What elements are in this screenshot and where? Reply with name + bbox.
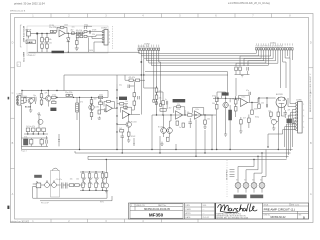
capacitor C70 <box>62 183 63 189</box>
matrix column 3 resistors <box>95 174 99 191</box>
svg-text:printed on 30/1/02: printed on 30/1/02 <box>11 221 30 224</box>
wire bus 2 <box>141 50 258 56</box>
label block stage2 <box>50 108 56 111</box>
svg-text:B: B <box>303 215 305 219</box>
connector CON3 <box>17 96 21 106</box>
wire con1 p13 stub <box>287 50 289 56</box>
label channel block <box>222 92 229 95</box>
resistor R60 <box>215 97 218 102</box>
wire drop ends CON2 p8 mark <box>155 102 157 105</box>
pin squares CON5 <box>296 103 298 131</box>
svg-text:10k: 10k <box>207 118 210 120</box>
svg-text:BC184: BC184 <box>25 106 31 109</box>
pin name ticks CON1 <box>256 43 292 45</box>
components lower mid R29 <box>98 110 101 114</box>
svg-text:100k: 100k <box>272 120 276 122</box>
node rail mid <box>41 90 42 91</box>
svg-text:AMENDMENT DETAILS SEE SHEET 2: AMENDMENT DETAILS SEE SHEET 2 <box>309 73 312 112</box>
svg-text:1n5: 1n5 <box>72 26 75 28</box>
resistor R55 <box>167 137 170 141</box>
transistor Q3 <box>89 105 94 110</box>
svg-text:IC2c: IC2c <box>196 109 200 111</box>
bus wire D <box>88 156 287 159</box>
wire con1 p9 drop <box>236 50 278 66</box>
RC block R7 C3 <box>76 32 83 38</box>
svg-text:MF350-60-02: MF350-60-02 <box>270 216 286 219</box>
ground right stage a <box>224 134 227 136</box>
label plate right <box>250 195 263 199</box>
capacitor C60 <box>249 92 250 95</box>
capacitor C51 <box>188 118 192 128</box>
svg-text:SHT 1 of 2: SHT 1 of 2 <box>291 204 299 206</box>
trimmer VR1 <box>76 103 79 112</box>
right stage nodes <box>217 98 236 99</box>
node rail mid2 <box>56 90 57 91</box>
op-amp IC2a <box>123 111 130 119</box>
transistor Q30 <box>104 183 109 188</box>
wire drop header p8 <box>155 50 157 101</box>
svg-text:1u5: 1u5 <box>288 116 291 118</box>
wire r42 <box>117 104 128 110</box>
wire Q11 Q12 <box>164 115 172 137</box>
resistor R62 <box>234 100 237 104</box>
transistor Q4 <box>38 119 43 124</box>
wire con5 p7 <box>294 121 295 130</box>
svg-text:3: 3 <box>109 38 110 40</box>
legs to bus centre-right <box>152 110 212 156</box>
right zone divider ticks <box>309 68 314 169</box>
resistor R69 <box>277 112 280 116</box>
feedback IC3a <box>239 96 250 103</box>
svg-text:1k5: 1k5 <box>268 110 271 112</box>
wire con1 p7 drop <box>244 50 273 66</box>
resistor R80 <box>105 173 108 177</box>
wire to valve <box>258 98 276 104</box>
svg-text:CON4: CON4 <box>101 28 107 30</box>
net label column dashes <box>230 170 235 177</box>
bypass arc <box>52 168 59 170</box>
resistor R25 chain <box>90 97 93 120</box>
ground R44 <box>127 136 130 142</box>
wire drive out right <box>202 115 216 120</box>
resistor R22 <box>52 96 56 98</box>
heater wires top <box>238 160 266 183</box>
lower row resistor R31 <box>31 128 35 132</box>
resistor R45 <box>120 130 124 132</box>
Marshall script logo <box>218 204 257 213</box>
ground drive <box>160 142 163 146</box>
svg-text:BC184: BC184 <box>131 121 137 123</box>
resistor R44 <box>127 132 130 136</box>
wire con1 p8 drop <box>248 50 276 66</box>
capacitor C62 <box>284 110 288 118</box>
node input junction <box>36 33 38 35</box>
wire con5 p3 <box>293 109 296 147</box>
svg-text:Page 1: Page 1 <box>28 54 34 56</box>
rail label <box>52 51 65 54</box>
svg-text:1u: 1u <box>165 99 167 101</box>
wire con1 p10 drop <box>279 50 281 88</box>
transistor Q11 <box>161 128 167 134</box>
bottom stage resistor R34 <box>30 139 33 144</box>
wire con1 p14 stub <box>289 50 291 58</box>
valve legs <box>278 106 284 116</box>
bottom stage capacitor C23 <box>46 140 47 144</box>
wire drop header p9 <box>159 50 161 103</box>
wires CON5 to circuit <box>268 88 296 159</box>
svg-text:FX LOOP: FX LOOP <box>41 202 50 204</box>
resistor R70 series <box>69 184 74 187</box>
resistor R67 <box>258 104 261 108</box>
resistor R9 <box>84 31 87 33</box>
ground right stage b <box>239 131 242 133</box>
pin labels CON5 <box>303 104 304 129</box>
svg-text:56k: 56k <box>52 100 55 102</box>
matrix column 2 resistors <box>88 174 92 191</box>
svg-text:1n: 1n <box>179 127 181 129</box>
svg-text:ECC83: ECC83 <box>276 94 283 96</box>
wire Q10 <box>117 115 129 133</box>
svg-text:IC1a: IC1a <box>57 28 61 30</box>
svg-text:25.1.02: 25.1.02 <box>203 217 209 219</box>
svg-text:22k: 22k <box>177 104 180 106</box>
svg-text:47k 47k: 47k 47k <box>129 77 135 79</box>
bottom legs centre left <box>117 138 135 153</box>
pin number labels <box>109 32 110 44</box>
wire bus 1 <box>139 50 256 53</box>
svg-text:220k: 220k <box>99 94 103 96</box>
svg-text:1: 1 <box>303 104 304 106</box>
svg-text:APPD: APPD <box>186 212 192 215</box>
right zone letters <box>310 42 312 197</box>
svg-text:CHKD: CHKD <box>186 209 192 211</box>
pin labels row <box>138 46 150 48</box>
wire con5 p6 <box>287 118 296 159</box>
op-amp IC1b mid-left output <box>106 105 112 112</box>
svg-text:IC2a: IC2a <box>124 109 128 111</box>
wire heater feed 1 <box>253 159 255 162</box>
svg-text:D: D <box>310 42 312 45</box>
left rail down <box>21 105 23 149</box>
resistor R52 <box>160 109 166 112</box>
svg-text:4k7: 4k7 <box>71 30 74 32</box>
capacitor C71 <box>66 183 67 189</box>
resistor R47 <box>133 101 136 105</box>
wire con1 p6 drop <box>240 50 271 66</box>
drive row nodes <box>156 114 206 115</box>
mid components R27 <box>99 96 103 98</box>
pin name ticks CON2 <box>139 45 159 47</box>
wire op-amp output <box>65 32 84 34</box>
drawing frame inner border <box>15 18 309 220</box>
svg-text:10k: 10k <box>89 178 92 180</box>
heater stubs below <box>238 188 262 192</box>
svg-text:DRN: DRN <box>186 205 191 207</box>
wire con5 p8 <box>292 123 296 125</box>
lower row resistor R32 <box>37 128 41 132</box>
bus wire B <box>75 151 291 153</box>
valve heater pin circle b <box>243 183 249 189</box>
svg-text:10k: 10k <box>261 102 264 104</box>
wire con5 p9 <box>285 127 296 147</box>
svg-text:—: — <box>203 209 205 211</box>
svg-text:270p: 270p <box>84 24 88 26</box>
wire bus 4 <box>146 50 263 61</box>
top zone divider ticks <box>51 14 272 18</box>
node stage3 in <box>73 97 74 98</box>
feedback wire IC2c <box>193 108 204 115</box>
wire drop p3 long <box>143 58 145 75</box>
capacitor C4 270p <box>84 26 92 29</box>
svg-text:1k8: 1k8 <box>94 98 97 100</box>
wire heater d <box>262 160 266 183</box>
header pins CON2 <box>138 48 160 50</box>
svg-text:VOL: VOL <box>24 137 28 139</box>
feedback wire IC1b <box>104 101 114 108</box>
resistor R6 <box>72 32 75 35</box>
svg-text:C: C <box>12 92 14 95</box>
wire con5 p1 <box>290 88 296 104</box>
valve heater pin circle d <box>259 183 265 189</box>
wire con1 p15 stub <box>291 50 293 60</box>
vertical feed wires centre <box>141 75 156 115</box>
valve V1 <box>276 97 287 108</box>
svg-text:100k: 100k <box>254 108 258 110</box>
resistor R8 drop <box>76 38 79 48</box>
resistor R63 <box>234 107 237 111</box>
wire stage3 out <box>101 91 108 111</box>
bottom stage resistor R35 <box>40 139 43 144</box>
resistor R71 series <box>75 184 80 187</box>
wire drop ends CON2 p9 mark <box>160 104 162 107</box>
svg-text:47k: 47k <box>80 102 83 104</box>
node rail left <box>21 90 22 91</box>
bus wire A <box>22 149 293 151</box>
jack J2 <box>33 181 41 188</box>
svg-text:22k: 22k <box>92 34 95 36</box>
wire junction drop <box>36 34 38 52</box>
wire trimmer <box>76 97 78 120</box>
capacitor C5 <box>89 30 90 33</box>
wire con5 p4 <box>291 112 296 151</box>
pcb outline box input stage <box>27 26 108 53</box>
wire IC3a out <box>248 103 259 111</box>
svg-text:820p: 820p <box>255 116 259 118</box>
wire con5 p2 <box>288 98 296 106</box>
resistor R68 <box>270 112 273 116</box>
wire drive row <box>152 114 213 116</box>
svg-text:47k: 47k <box>159 90 162 92</box>
resistor R61 <box>215 104 218 109</box>
capacitor C61 <box>266 104 267 107</box>
svg-text:INPUT: INPUT <box>26 30 33 32</box>
wire bus 6 <box>151 50 268 65</box>
feedback resistor R43 <box>123 106 127 108</box>
svg-text:10k: 10k <box>70 178 73 180</box>
title block right: title cell <box>263 203 309 219</box>
svg-text:3: 3 <box>303 110 304 112</box>
pot P2 <box>45 183 50 188</box>
resistor R50 top <box>155 86 158 115</box>
svg-text:IC3a: IC3a <box>242 97 246 99</box>
matrix column 1 resistors <box>82 174 86 191</box>
label contour block <box>173 99 186 102</box>
svg-text:MF350-60-02 B: MF350-60-02 B <box>10 11 26 13</box>
label plate left <box>234 195 247 199</box>
wire bus 8 long <box>228 72 237 96</box>
supply rail top <box>22 90 108 92</box>
svg-text:470R: 470R <box>92 30 97 32</box>
svg-text:10k: 10k <box>76 178 79 180</box>
svg-text:C2 R4: C2 R4 <box>49 25 54 27</box>
label fx block <box>34 175 42 178</box>
ground stub Q1 <box>29 103 32 112</box>
title block outline <box>129 203 309 219</box>
bias network R C near CON1 <box>235 67 249 71</box>
resistor R26 <box>90 112 93 116</box>
svg-text:1: 1 <box>109 32 110 34</box>
svg-text:470k: 470k <box>212 95 216 97</box>
left zone letters <box>12 42 14 197</box>
wire valve leg to bus <box>277 116 279 149</box>
resistor R58 <box>204 120 207 124</box>
ground buffer <box>104 191 108 193</box>
resistor R64 <box>251 110 254 114</box>
op-amp IC2b <box>176 111 183 119</box>
connector CON4 <box>104 30 108 46</box>
CON1 fan-down wires <box>236 50 292 88</box>
svg-text:Page 2: Page 2 <box>21 150 27 152</box>
resistor R51 <box>162 101 165 105</box>
resistor R56 <box>176 121 179 125</box>
node out2 <box>56 97 57 98</box>
svg-text:V4: V4 <box>260 179 262 181</box>
svg-text:2M2: 2M2 <box>44 43 48 45</box>
svg-text:4k7: 4k7 <box>169 107 172 109</box>
bus wire C <box>88 155 289 157</box>
capacitor C20 <box>35 97 36 104</box>
svg-text:1k5: 1k5 <box>119 128 122 130</box>
components lower mid C22 <box>104 109 105 113</box>
left margin vertical text bracket <box>20 25 21 47</box>
svg-text:10k: 10k <box>187 112 190 114</box>
svg-text:GAIN: GAIN <box>27 41 33 44</box>
wire con3 to stage <box>21 97 34 103</box>
lower row nodes <box>27 133 44 134</box>
ground GND1 <box>75 48 79 50</box>
svg-text:USED ON: USED ON <box>136 205 145 207</box>
title block logo cell divider <box>215 203 217 219</box>
supply feed corner wire <box>64 75 228 91</box>
resistor R1 chain <box>41 34 44 53</box>
resistor R65 <box>240 120 243 124</box>
heater feed drops from bus <box>254 150 266 161</box>
svg-text:MF350: MF350 <box>149 213 164 218</box>
svg-text:PRE AMP CIRCUIT (1.): PRE AMP CIRCUIT (1.) <box>264 207 296 211</box>
heater feed nodes <box>253 152 262 160</box>
svg-text:V1: V1 <box>236 179 238 181</box>
feedback wire <box>57 27 67 33</box>
resistor R3 series <box>54 30 57 32</box>
label master block <box>119 97 127 100</box>
svg-text:IC2b: IC2b <box>177 109 181 111</box>
long drop wire <box>79 97 81 149</box>
feedback resistor R53 <box>176 106 180 108</box>
svg-text:MAIN PCB: MAIN PCB <box>22 52 25 63</box>
svg-text:9: 9 <box>303 127 304 129</box>
dotted separation line <box>226 160 228 198</box>
bus nodes <box>79 146 269 157</box>
main left rail <box>116 84 118 146</box>
trimmer VR2 <box>229 110 232 120</box>
svg-text:470k: 470k <box>52 94 56 96</box>
scanner punch mark upper <box>8 97 10 100</box>
svg-text:47u 47u: 47u 47u <box>56 179 63 181</box>
left zone divider ticks <box>11 68 15 169</box>
svg-text:4u7: 4u7 <box>99 100 102 102</box>
svg-text:BC184: BC184 <box>158 126 164 128</box>
mid components R28 <box>99 102 103 104</box>
lower row legs <box>28 132 44 134</box>
svg-text:CON2: CON2 <box>144 43 150 45</box>
transistor Q21 <box>271 119 276 124</box>
wire jack to pots <box>41 184 61 186</box>
svg-text:2: 2 <box>109 35 110 37</box>
wire heater feed 3 <box>261 153 263 160</box>
svg-text:4: 4 <box>109 42 110 44</box>
capacitor C50 <box>166 101 167 105</box>
resistor R20 <box>24 98 27 103</box>
svg-text:68k: 68k <box>49 39 52 41</box>
wire bus 3 <box>144 50 261 58</box>
resistor R57 <box>182 123 185 127</box>
scanner punch mark lower <box>7 206 9 209</box>
resistor R66 <box>248 118 251 122</box>
node row right <box>251 97 267 103</box>
svg-text:BC184: BC184 <box>94 106 100 108</box>
ground R58 <box>203 124 206 128</box>
svg-text:MF350 PRE AMP: MF350 PRE AMP <box>22 26 25 43</box>
ground rail bottom <box>29 51 141 53</box>
svg-text:56k: 56k <box>212 103 215 105</box>
svg-text:10k: 10k <box>82 178 85 180</box>
capacitor C41 <box>121 132 125 141</box>
resistor R21 chain <box>40 91 43 107</box>
wire heater a <box>238 160 254 183</box>
svg-text:CON5: CON5 <box>296 99 302 101</box>
svg-text:1: 1 <box>131 205 132 207</box>
feedback resistor R36 <box>107 100 111 102</box>
feedback wire IC2a <box>121 107 132 114</box>
bottom stage pot P1 <box>24 139 28 145</box>
wire r46 r47 <box>132 86 135 110</box>
matrix rail nodes top <box>82 171 103 172</box>
svg-text:DATE: DATE <box>186 216 192 219</box>
bottom zone numbers <box>32 220 144 223</box>
svg-text:1k 10n 47k: 1k 10n 47k <box>26 126 35 128</box>
wire bus 5 <box>149 50 266 63</box>
board boundary dashed <box>112 26 114 50</box>
svg-text:10n: 10n <box>49 43 52 45</box>
wire con1 p11 drop <box>283 50 286 88</box>
wire q2 out <box>43 91 48 107</box>
capacitor C24 leg <box>58 134 60 146</box>
wire con1 p12 drop <box>285 50 290 88</box>
resistor R54 between <box>188 114 192 117</box>
wire heater feed 2 <box>257 156 259 160</box>
resistor R46 <box>133 93 136 97</box>
connector body CON5 <box>298 102 303 134</box>
